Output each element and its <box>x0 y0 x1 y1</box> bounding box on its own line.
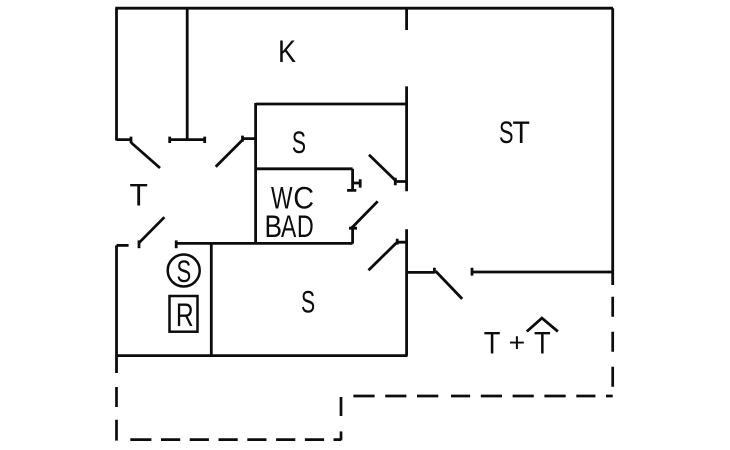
wall K/ST divider <box>405 86 408 191</box>
wall lower-S top <box>176 242 352 245</box>
door swing F <box>369 243 397 270</box>
roof caret over second T <box>527 318 558 331</box>
door jamb tick E <box>138 240 141 248</box>
wall bottom <box>117 354 408 357</box>
dashed wall mid vertical <box>340 397 343 440</box>
svg-text:S: S <box>177 253 192 289</box>
wall hallway bottom right segment with cap <box>472 268 613 276</box>
svg-text:T: T <box>130 177 148 213</box>
door swing A <box>131 143 160 169</box>
door jamb tick D <box>353 179 361 187</box>
door jamb tick C <box>395 178 407 185</box>
wall WC right upper stub with cap <box>347 169 356 191</box>
door swing E <box>139 217 164 243</box>
wall WC top <box>256 167 353 170</box>
svg-text:S: S <box>499 114 514 150</box>
dashed wall left vertical <box>115 387 118 441</box>
door swing B <box>216 139 243 166</box>
wall left upper <box>115 8 118 140</box>
svg-text:S: S <box>292 124 306 160</box>
door jamb tick B <box>243 136 257 142</box>
svg-text:T: T <box>513 114 530 150</box>
wall hallway bottom left segment with cap <box>407 268 435 274</box>
wall entry divider <box>186 8 189 139</box>
dashed wall right vertical <box>611 297 614 387</box>
wall S-room top <box>256 103 408 106</box>
svg-text:+: + <box>509 328 526 358</box>
wall top <box>115 7 613 10</box>
svg-text:T: T <box>484 325 501 361</box>
dashed wall bottom horizontal <box>130 438 341 441</box>
wall S-room left <box>254 103 257 244</box>
wall lower right vertical <box>405 229 408 355</box>
svg-text:T: T <box>534 325 551 361</box>
door swing C <box>369 155 396 181</box>
wall left lower <box>115 245 118 373</box>
symbol circled S <box>168 255 200 287</box>
svg-text:R: R <box>176 297 194 333</box>
door swing G <box>436 271 463 299</box>
symbol boxed R <box>170 296 198 332</box>
door jamb tick A <box>117 137 132 143</box>
svg-text:A: A <box>281 208 296 244</box>
wall K/ST divider stub <box>405 8 408 30</box>
door swing D <box>352 201 378 228</box>
wall right <box>611 8 614 285</box>
svg-text:B: B <box>265 208 283 244</box>
svg-text:S: S <box>301 284 315 320</box>
wall stub at left lower corner <box>117 244 129 247</box>
dashed wall mid horizontal <box>353 395 612 398</box>
wall lower-S left divider <box>210 243 213 355</box>
svg-text:K: K <box>278 33 296 69</box>
svg-text:D: D <box>297 208 314 244</box>
door jamb tick F <box>397 239 407 245</box>
door crossbar with end caps <box>170 137 205 143</box>
dashed boundary terrace <box>117 297 613 441</box>
jamb tick at lower-S top wall left end <box>175 240 178 248</box>
wall WC right lower stub with cap <box>349 228 357 243</box>
